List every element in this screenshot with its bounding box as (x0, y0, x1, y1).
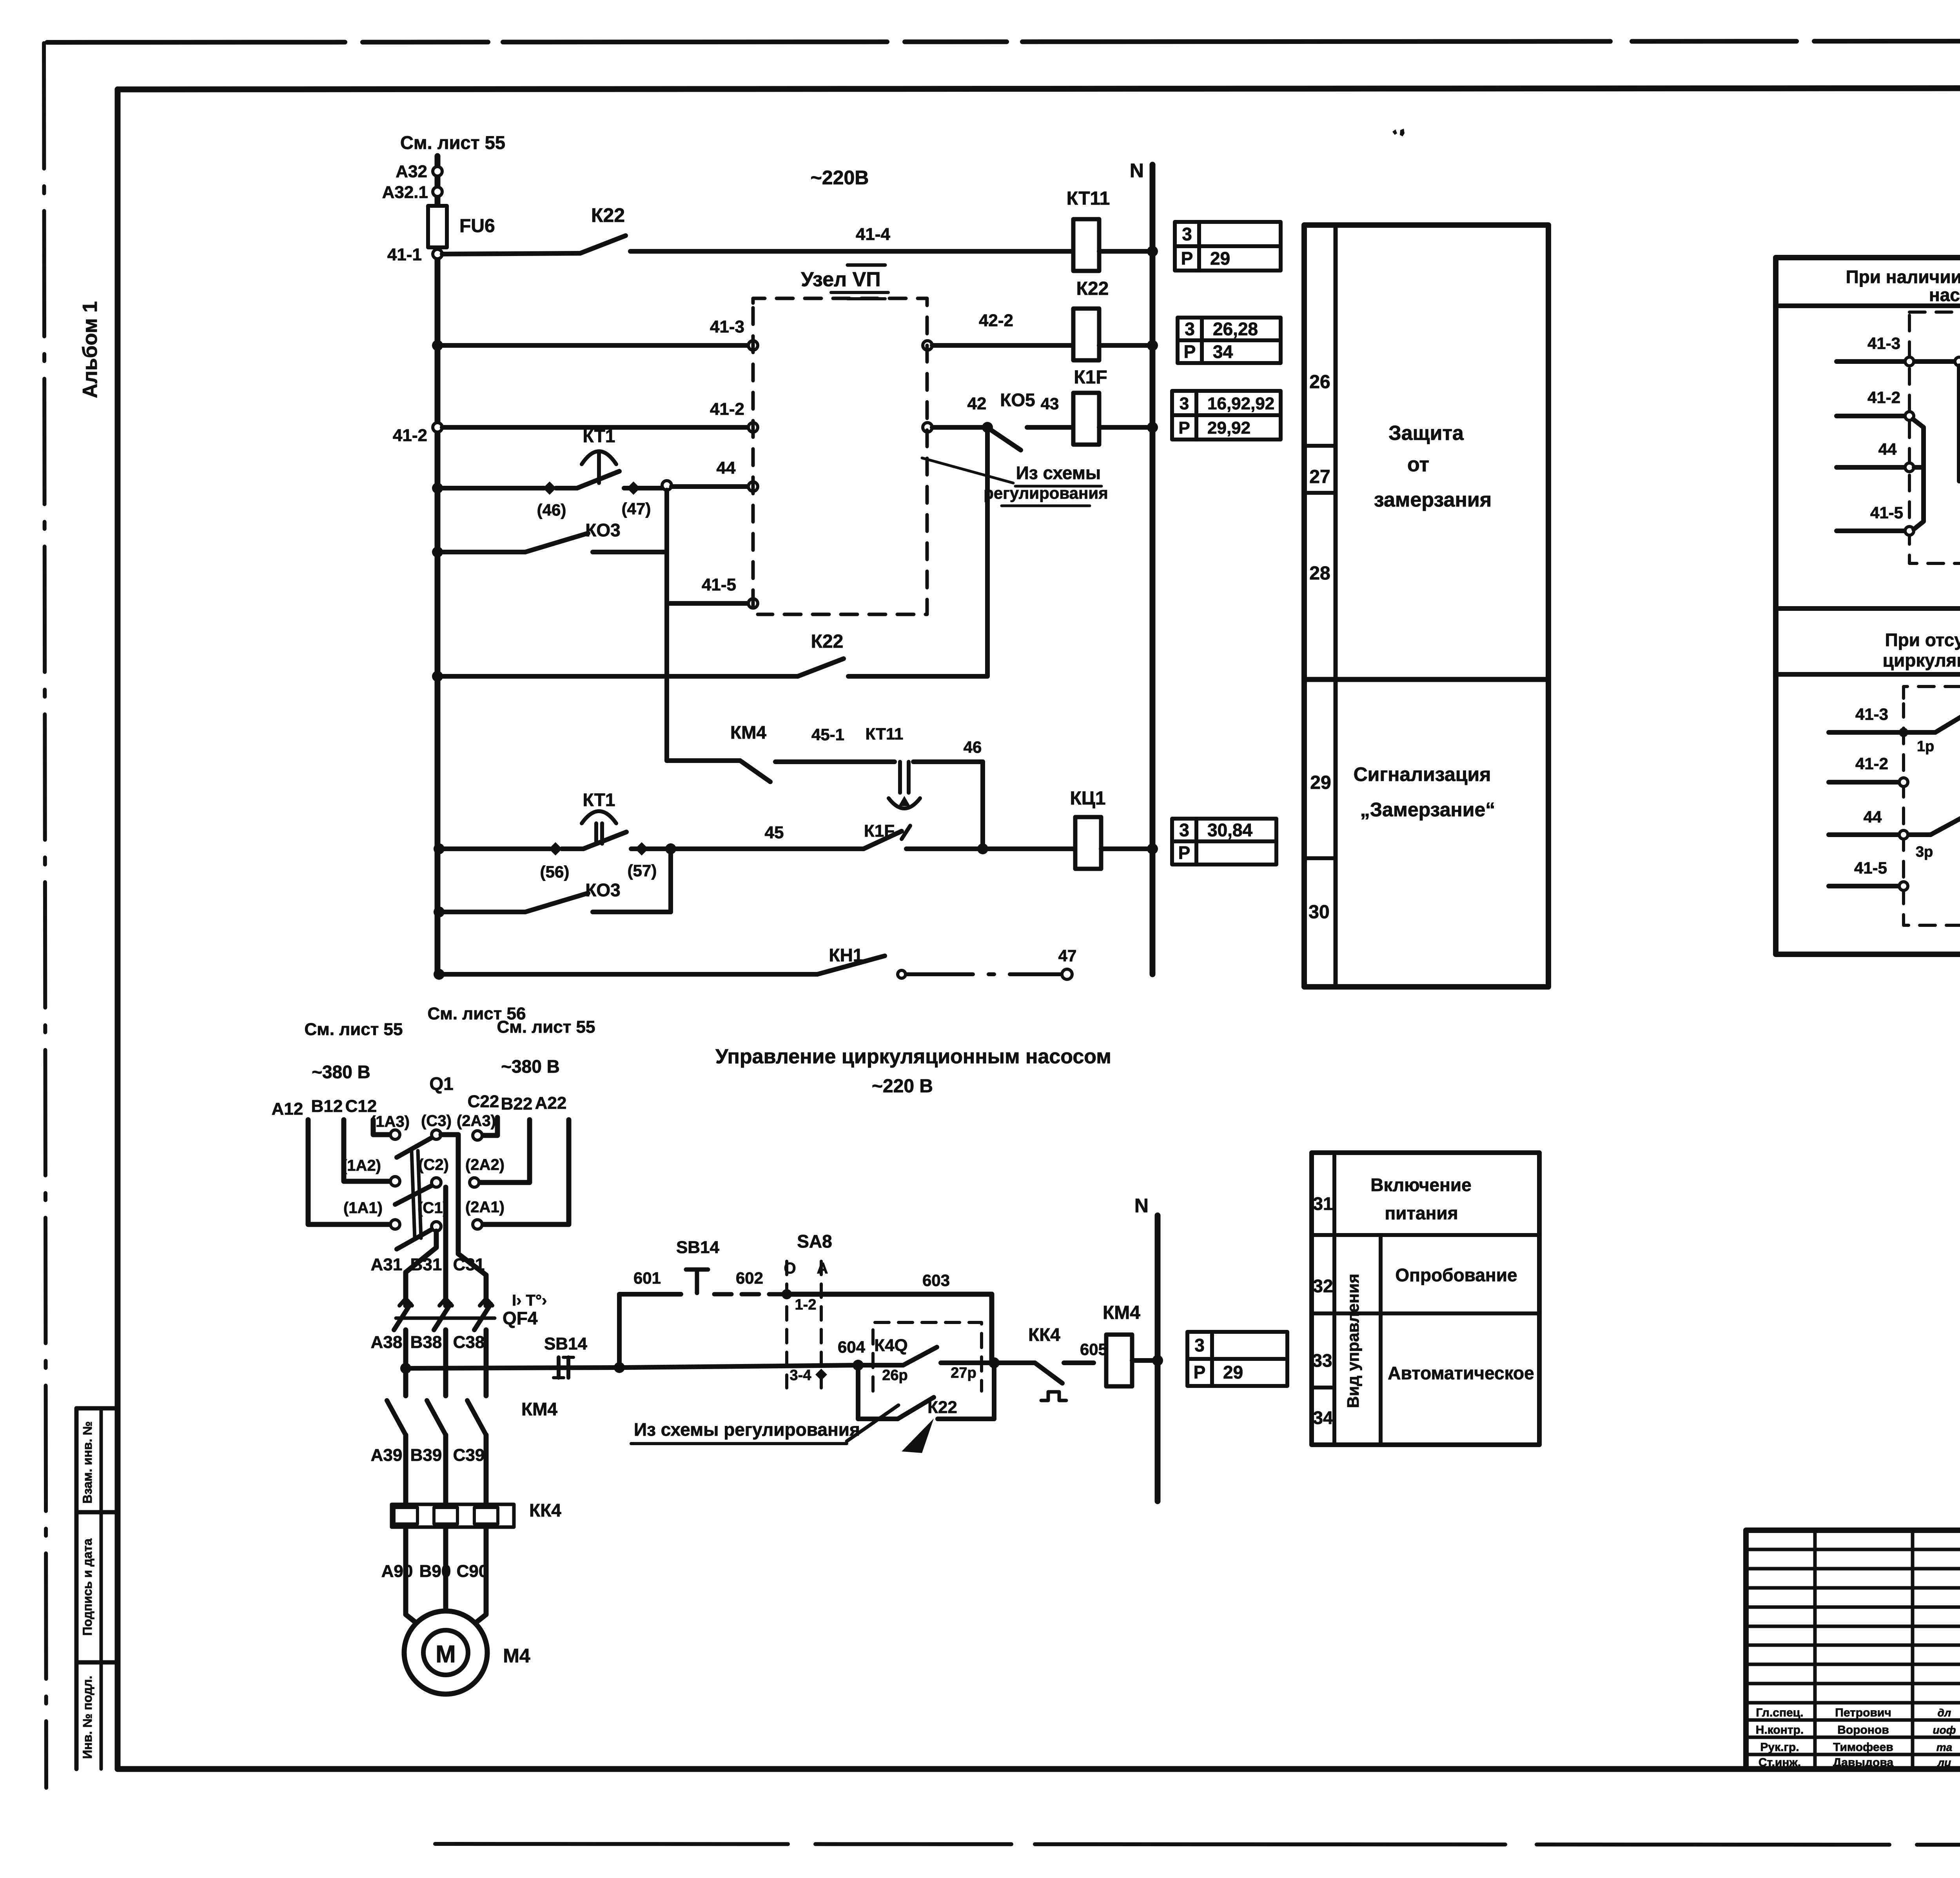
svg-text:(2А1): (2А1) (465, 1199, 505, 1216)
terminal diamond (47) of relay KT1 (624, 486, 662, 490)
svg-text:47: 47 (1058, 946, 1077, 965)
selector switch SA8 (785, 1261, 788, 1388)
svg-text:В38: В38 (410, 1333, 442, 1352)
svg-text:(1А1): (1А1) (343, 1199, 383, 1217)
svg-text:29: 29 (1223, 1362, 1243, 1382)
wire 41-2 (scheme 2) (1829, 780, 1899, 785)
svg-text:Опробование: Опробование (1395, 1265, 1517, 1285)
svg-text:(2А2): (2А2) (465, 1156, 505, 1173)
svg-text:31: 31 (1313, 1193, 1333, 1214)
svg-text:Р: Р (1194, 1362, 1206, 1382)
svg-text:FU6: FU6 (459, 216, 495, 236)
wire to diamond (56) (439, 846, 550, 851)
svg-text:3: 3 (1194, 1335, 1205, 1355)
relay coil K22 (1073, 309, 1099, 360)
feeder wire A22 (483, 1120, 569, 1224)
svg-text:45-1: 45-1 (811, 725, 844, 744)
connection table (KM4) 3 / Р 29 (1187, 1332, 1287, 1386)
wire 44 / contact SK3 (scheme 2) (1829, 832, 1931, 837)
wire 603 (787, 1292, 992, 1297)
wire coil K1F to N (1099, 425, 1152, 430)
svg-text:41-5: 41-5 (1870, 503, 1903, 522)
contactor KM4 main contacts (387, 1400, 406, 1435)
svg-text:А31: А31 (371, 1255, 403, 1274)
svg-text:М4: М4 (503, 1645, 530, 1667)
svg-text:41-1: 41-1 (387, 245, 422, 264)
svg-text:ли: ли (1937, 1756, 1951, 1769)
Uzel VK scheme 1 dashed box (1909, 312, 1960, 563)
page outer rough border top (47, 41, 1960, 42)
svg-text:Ст.инж.: Ст.инж. (1759, 1756, 1801, 1769)
node 44 on bus (432, 483, 443, 494)
node 41-3 on bus (432, 340, 443, 351)
time contact KT1 (circuit 44) (556, 486, 577, 490)
connection table (KTs1) 3 30,84 / Р (1172, 819, 1276, 865)
svg-text:41-3: 41-3 (1867, 334, 1900, 352)
svg-text:605: 605 (1080, 1340, 1107, 1359)
wire 42-2 (923, 341, 932, 350)
svg-text:К22: К22 (811, 631, 844, 652)
disconnect plug SB14 (power) (557, 1357, 561, 1378)
svg-text:Из схемы регулирования: Из схемы регулирования (634, 1419, 860, 1440)
wire 45 (665, 843, 676, 854)
svg-text:М: М (436, 1641, 456, 1668)
title block frame (1746, 1530, 1960, 1769)
svg-text:А39: А39 (371, 1446, 403, 1465)
svg-text:44: 44 (1864, 808, 1882, 826)
svg-text:SВ14: SВ14 (544, 1334, 588, 1353)
svg-text:КТ11: КТ11 (866, 725, 904, 743)
motor leads (406, 1527, 423, 1628)
svg-text:41-4: 41-4 (856, 225, 891, 244)
svg-text:3: 3 (1182, 224, 1192, 244)
wire 44 left (437, 486, 544, 490)
svg-text:КМ4: КМ4 (730, 722, 766, 743)
svg-text:К22: К22 (1076, 278, 1109, 299)
wire 604 (624, 1365, 858, 1368)
contact SK3 (scheme 1) (1957, 366, 1960, 481)
contact KN1 (817, 956, 885, 974)
wire 41-1 to contact K22 (442, 253, 580, 254)
svg-text:регулирования: регулирования (984, 484, 1108, 502)
page outer rough border left (dash-dot) (44, 43, 46, 1788)
svg-text:26: 26 (1309, 372, 1330, 392)
contact KO3 (bypass of KT1) (432, 547, 443, 558)
tap junction on phase A38 (400, 1363, 411, 1374)
wire 47 (dash-dot) (906, 972, 1061, 976)
relay coil K1F (1073, 393, 1099, 445)
svg-text:При наличии циркуляционного: При наличии циркуляционного (1846, 267, 1960, 287)
feeder wire A12 (308, 1120, 390, 1224)
svg-text:27р: 27р (951, 1365, 976, 1381)
svg-text:КН1: КН1 (829, 945, 863, 965)
svg-text:(С2): (С2) (418, 1156, 449, 1173)
svg-text:41-2: 41-2 (393, 426, 427, 445)
svg-text:Гл.спец.: Гл.спец. (1756, 1706, 1803, 1719)
node K22 row on bus (432, 671, 443, 682)
svg-text:циркуляционного насоса: циркуляционного насоса (1883, 650, 1960, 670)
svg-text:42-2: 42-2 (979, 311, 1013, 330)
svg-text:26р: 26р (882, 1367, 907, 1384)
wire coil KTs1 to N (1101, 846, 1152, 851)
svg-text:насоса: насоса (1929, 285, 1960, 305)
svg-text:27: 27 (1309, 467, 1330, 487)
svg-text:С22: С22 (468, 1092, 499, 1111)
break contact KK4 (999, 1360, 1035, 1365)
svg-text:К22: К22 (591, 204, 625, 226)
Uzel VK outer box (1776, 258, 1960, 954)
svg-text:С90: С90 (457, 1562, 488, 1581)
svg-text:604: 604 (838, 1338, 866, 1356)
svg-text:В39: В39 (410, 1446, 442, 1465)
svg-text:Взам. инв. №: Взам. инв. № (80, 1421, 94, 1504)
feeder wire B22 (480, 1120, 530, 1182)
contact K22 (bypass) (856, 1365, 860, 1419)
svg-text:К1F: К1F (1074, 367, 1107, 388)
connection table (K1F) 3 16,92,92 / Р 29,92 (1172, 391, 1281, 440)
function table 31-34 (1312, 1153, 1539, 1445)
revision table grid (1746, 1548, 1960, 1551)
wire 46 (913, 759, 983, 764)
svg-text:та: та (1936, 1741, 1952, 1753)
svg-text:Тимофеев: Тимофеев (1833, 1741, 1893, 1754)
svg-text:При отсутствии на объекте: При отсутствии на объекте (1885, 630, 1960, 650)
svg-text:Сигнализация: Сигнализация (1354, 763, 1491, 785)
svg-text:601: 601 (633, 1269, 661, 1287)
wire coil K22 to N (1099, 343, 1152, 348)
svg-text:Р: Р (1178, 843, 1191, 863)
junction 601 (614, 1362, 625, 1373)
svg-text:Защита: Защита (1388, 422, 1464, 445)
svg-text:3: 3 (1180, 394, 1189, 413)
function table 26-30 (1304, 225, 1548, 987)
svg-text:~220 В: ~220 В (872, 1076, 933, 1097)
svg-text:43: 43 (1041, 394, 1059, 413)
wire 41-3 (437, 343, 748, 348)
svg-text:питания: питания (1385, 1203, 1458, 1223)
wire C2 to B31 (443, 1187, 448, 1306)
drawing frame (118, 88, 1960, 89)
svg-text:В31: В31 (410, 1255, 442, 1274)
wire C3 to C31 (441, 1135, 486, 1306)
wire tap to SB14 (406, 1368, 619, 1368)
svg-text:~380 В: ~380 В (501, 1056, 560, 1077)
svg-text:(1А3): (1А3) (370, 1113, 410, 1130)
svg-text:Q1: Q1 (429, 1073, 453, 1094)
svg-text:~380 В: ~380 В (312, 1062, 370, 1082)
svg-text:С38: С38 (453, 1333, 485, 1352)
link bus (scheme 1) (1913, 419, 1924, 529)
svg-text:44: 44 (1878, 440, 1897, 458)
wire 601 (617, 1294, 622, 1368)
svg-text:КК4: КК4 (529, 1500, 561, 1520)
svg-text:41-2: 41-2 (710, 400, 744, 419)
node / wire 44 right (662, 481, 671, 490)
svg-text:32: 32 (1313, 1276, 1333, 1296)
wire KM4 row from 41-5 branch (667, 758, 740, 763)
page outer rough border bottom (435, 1844, 1960, 1845)
svg-text:См. лист 55: См. лист 55 (497, 1017, 595, 1037)
feeder wire B12 (344, 1120, 390, 1181)
svg-text:(47): (47) (622, 499, 651, 518)
svg-text:А12: А12 (272, 1099, 303, 1119)
wire coil KT11 to N (1099, 249, 1152, 254)
svg-text:К4Q: К4Q (874, 1336, 908, 1355)
wire 41-3 (scheme 2) (1829, 730, 1935, 735)
svg-text:SВ14: SВ14 (676, 1238, 720, 1257)
contact K22 (seal-in) (437, 674, 798, 679)
node 41-2 on bus (433, 423, 442, 432)
motor M4 (404, 1611, 487, 1694)
wire 44 (scheme 1) (1837, 465, 1905, 470)
contact KO3 (bypass, circuit 45) (434, 906, 445, 917)
node 45 row on bus (434, 843, 445, 854)
svg-text:А32.1: А32.1 (382, 183, 428, 202)
contact K4Q (858, 1363, 903, 1368)
svg-text:Рук.гр.: Рук.гр. (1760, 1741, 1799, 1754)
svg-text:„Замерзание“: „Замерзание“ (1360, 799, 1495, 821)
svg-text:28: 28 (1309, 563, 1330, 584)
svg-text:Инв. № подл.: Инв. № подл. (80, 1676, 94, 1759)
connection table (K22) 3 26,28 / Р 34 (1178, 318, 1281, 363)
wire 41-2 (442, 425, 748, 430)
svg-text:К22: К22 (927, 1398, 957, 1417)
svg-text:(46): (46) (537, 501, 566, 519)
time contact KT11 (898, 762, 902, 793)
svg-text:иоф: иоф (1933, 1724, 1956, 1736)
svg-text:(1А2): (1А2) (342, 1157, 381, 1174)
contactor coil KM4 (1106, 1335, 1132, 1386)
svg-text:Подпись и дата: Подпись и дата (80, 1538, 94, 1636)
dashed box Uzel VP (753, 298, 927, 614)
thermal relay KK4 heaters (392, 1504, 514, 1527)
node A32.1 (433, 187, 442, 196)
left supply bus 41 (435, 156, 441, 974)
svg-text:КЦ1: КЦ1 (1070, 788, 1105, 809)
wire 41-2 (scheme 1) (1837, 414, 1905, 418)
pushbutton SB14 (686, 1268, 708, 1272)
svg-text:Воронов: Воронов (1837, 1724, 1889, 1736)
svg-text:Петрович: Петрович (1835, 1706, 1891, 1719)
svg-text:См. лист 55: См. лист 55 (400, 132, 505, 153)
svg-text:41-3: 41-3 (1855, 705, 1888, 723)
svg-text:Узел VП: Узел VП (801, 268, 880, 291)
neutral bus N (bottom) (1155, 1215, 1161, 1501)
svg-text:А32: А32 (396, 162, 427, 181)
svg-text:КМ4: КМ4 (521, 1399, 557, 1419)
svg-text:Из схемы: Из схемы (1016, 463, 1101, 483)
svg-text:(56): (56) (540, 863, 570, 881)
svg-text:К1F: К1F (864, 821, 895, 841)
svg-text:замерзания: замерзания (1374, 489, 1492, 511)
switch Q1 linkage (412, 1151, 415, 1238)
dashed box K4Q (873, 1322, 982, 1391)
wire 41-5 (scheme 2) (1829, 884, 1899, 888)
svg-text:1р: 1р (1917, 738, 1934, 755)
svg-text:Вид управления: Вид управления (1344, 1274, 1362, 1408)
svg-text:41-5: 41-5 (1854, 859, 1887, 877)
svg-text:34: 34 (1213, 341, 1233, 362)
wire 43 (1027, 425, 1074, 430)
svg-text:3: 3 (1185, 319, 1195, 339)
wire 41-5 (667, 601, 748, 606)
svg-text:41-5: 41-5 (702, 575, 736, 594)
svg-text:КТ1: КТ1 (583, 790, 615, 810)
svg-text:N: N (1134, 1195, 1149, 1217)
wire 602 (dashed) (714, 1292, 787, 1297)
Uzel VK scheme 2 dashed box (1904, 687, 1960, 925)
switch Q1 blades (397, 1138, 432, 1157)
fuse FU6 (428, 206, 447, 247)
svg-text:N: N (1130, 160, 1144, 182)
feeder wire C12 (373, 1120, 390, 1135)
contact K22 (circuit 41-4) (580, 236, 626, 253)
svg-text:КО3: КО3 (585, 520, 620, 540)
svg-text:41-2: 41-2 (1867, 388, 1900, 407)
svg-text:29: 29 (1310, 772, 1331, 793)
wire 41-5 (scheme 1) (1837, 529, 1905, 533)
svg-text:29: 29 (1210, 248, 1230, 269)
svg-text:Р: Р (1181, 248, 1193, 269)
relay coil KTs1 (983, 846, 1076, 851)
pole wires QF4 to KM4 (403, 1330, 408, 1396)
svg-text:А: А (817, 1260, 828, 1277)
circuit breaker QF4 (394, 1304, 410, 1330)
terminal diamond (46) of relay KT1 (543, 481, 556, 495)
svg-text:41-3: 41-3 (710, 317, 744, 336)
wire 41-4 (630, 249, 1074, 254)
contact SA8 1-2 (782, 1289, 792, 1299)
svg-text:от: от (1407, 453, 1429, 476)
time contact KT1 (circuit 45) (562, 846, 583, 851)
wire coil KM4 to N (1132, 1358, 1158, 1363)
svg-text:А22: А22 (535, 1093, 567, 1113)
svg-text:КО5: КО5 (1000, 390, 1035, 410)
svg-text:QF4: QF4 (503, 1308, 538, 1328)
svg-text:КО3: КО3 (585, 880, 620, 900)
svg-text:В12: В12 (311, 1097, 343, 1116)
svg-text:С39: С39 (453, 1446, 485, 1465)
svg-text:КТ1: КТ1 (583, 426, 615, 446)
svg-text:16,92,92: 16,92,92 (1207, 394, 1274, 413)
svg-text:41-2: 41-2 (1855, 754, 1888, 773)
svg-text:26,28: 26,28 (1213, 319, 1258, 339)
terminal diamond (56) of relay KT1 (549, 842, 562, 855)
contact KM4 (aux) (740, 761, 770, 782)
svg-text:Н.контр.: Н.контр. (1756, 1724, 1804, 1736)
svg-text:3р: 3р (1916, 844, 1933, 860)
wire to contact KN1 (439, 972, 817, 977)
svg-text:SА8: SА8 (797, 1231, 832, 1251)
contact KO5 (988, 428, 1021, 450)
node 47 row on bus (434, 969, 445, 980)
svg-text:Р: Р (1184, 341, 1196, 362)
svg-text:КТ11: КТ11 (1067, 188, 1110, 209)
svg-text:КК4: КК4 (1028, 1324, 1060, 1345)
svg-text:Управление циркуляционным на: Управление циркуляционным насосом (715, 1045, 1111, 1068)
Uzel VK middle divider (1776, 606, 1960, 611)
break contact K1F (864, 831, 902, 849)
terminal diamond (57) of relay KT1 (631, 846, 666, 851)
svg-text:602: 602 (736, 1269, 763, 1287)
svg-text:дл: дл (1938, 1707, 1951, 1719)
svg-text:603: 603 (922, 1271, 950, 1290)
svg-text:(2А3): (2А3) (457, 1112, 496, 1130)
contact SK2 (scheme 2) (1935, 710, 1960, 732)
svg-text:29,92: 29,92 (1207, 418, 1250, 438)
svg-text:См. лист 55: См. лист 55 (305, 1020, 403, 1039)
svg-text:Альбом 1: Альбом 1 (79, 301, 102, 398)
wire 42 / node 42 (923, 423, 932, 432)
neutral bus N (top) (1150, 165, 1156, 974)
wire C1 to A31 (406, 1231, 436, 1306)
svg-text:3: 3 (1179, 820, 1189, 840)
switch Q1 terminals (432, 1130, 441, 1139)
svg-text:30,84: 30,84 (1207, 820, 1253, 840)
svg-text:В22: В22 (501, 1094, 533, 1113)
wire from node 42 down to contact K22 row (985, 427, 990, 676)
svg-text:I› T°›: I› T°› (512, 1292, 547, 1309)
svg-text:Р: Р (1178, 418, 1190, 438)
svg-text:КМ4: КМ4 (1103, 1302, 1140, 1323)
left margin stamp strip (74, 1408, 79, 1769)
svg-text:44: 44 (717, 458, 736, 478)
svg-text:34: 34 (1313, 1408, 1333, 1428)
svg-text:Давыдова: Давыдова (1833, 1756, 1894, 1769)
svg-text:33: 33 (1312, 1350, 1332, 1371)
svg-text:О: О (784, 1260, 796, 1277)
svg-text:Автоматическое: Автоматическое (1388, 1363, 1534, 1383)
node A32 (433, 167, 442, 176)
wire 41-3 (scheme 1) (1837, 359, 1955, 364)
svg-text:46: 46 (964, 738, 982, 756)
svg-text:(С3): (С3) (421, 1112, 452, 1130)
svg-text:42: 42 (967, 394, 987, 413)
node 41-1 (433, 249, 442, 259)
svg-text:Включение: Включение (1370, 1175, 1472, 1195)
svg-text:А38: А38 (371, 1333, 403, 1352)
scan ink smudge (1392, 129, 1405, 136)
contact SA8 3-4 (815, 1369, 827, 1380)
wire link 44/KO3/41-5/KM4 vertical (664, 490, 669, 761)
svg-text:30: 30 (1308, 902, 1329, 923)
svg-text:3-4: 3-4 (790, 1367, 811, 1384)
connection table (KT11) 3 / Р 29 (1175, 222, 1281, 271)
svg-text:С31: С31 (453, 1255, 485, 1274)
relay coil KT11 (1073, 219, 1099, 271)
feeder wire C22 (483, 1117, 497, 1135)
svg-text:(57): (57) (628, 861, 657, 880)
svg-text:1-2: 1-2 (795, 1297, 817, 1313)
svg-text:45: 45 (765, 823, 784, 842)
svg-text:~220В: ~220В (811, 167, 869, 189)
